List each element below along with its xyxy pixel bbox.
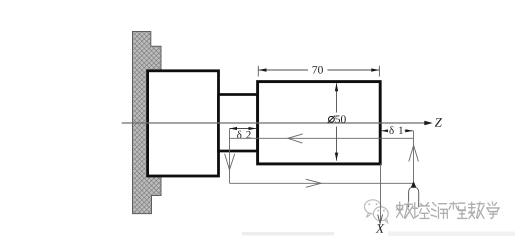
X label [376,224,385,233]
tool path bottom line [230,182,414,184]
watermark text: shu kong bian cheng jiao xue (drawn strokes) [397,202,500,218]
tool tip (filled) [411,181,417,188]
workpiece neck [219,95,258,152]
dimension phi50 vertical line [336,83,338,112]
tool path top line [230,137,414,139]
watermark logo small bubble [373,207,388,223]
char CHENG [449,202,467,218]
Z label [435,118,442,127]
watermark logo eyes [368,203,385,211]
tool path right-pointing arrow [306,179,321,187]
char XUE [487,202,500,218]
dimension text phi50 (diameter symbol + 50) [329,116,335,122]
char BIAN [431,203,447,219]
tool path right vertical [413,131,415,182]
X axis arrow [378,215,383,224]
dimension 70 line [258,69,308,71]
tool path left vertical [229,129,231,184]
centerline [122,122,425,124]
Z axis arrowhead [424,121,433,126]
X axis line [380,164,382,221]
tool path down arrow [225,154,235,170]
watermark logo big bubble [365,200,382,218]
workpiece right rectangle [258,82,381,164]
dimension text 70 [313,66,323,74]
char SHU [397,202,414,218]
delta1 dimension line [381,130,413,132]
delta2 text [237,131,251,139]
delta1 text [388,125,405,135]
dimension 70 extension lines [257,66,259,77]
faint bottom smudge [242,232,334,236]
tool path up arrow [409,145,419,161]
tool body [409,188,411,208]
char KONG [413,203,430,219]
chuck (hatched body with jaw step) [133,32,162,214]
delta2 dimension line [230,128,257,130]
char JIAO [469,202,485,218]
tool path left-pointing arrow [288,134,303,143]
workpiece left rectangle [148,71,219,176]
